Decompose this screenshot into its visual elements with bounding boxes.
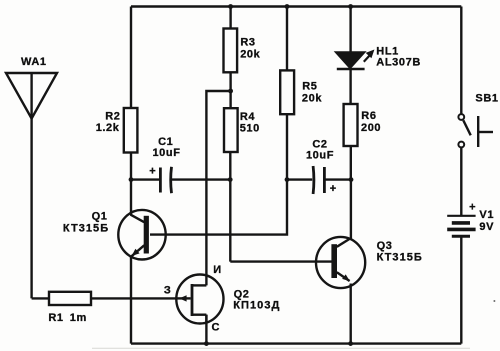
svg-text:R2: R2 (105, 111, 120, 123)
wire switch to battery (460, 148, 462, 216)
svg-text:R4: R4 (240, 111, 256, 123)
wire right column to switch (460, 7, 462, 114)
wire R6 node to Q3 collector (350, 180, 352, 240)
svg-text:R1: R1 (48, 312, 63, 324)
resistor R5 (280, 7, 294, 180)
wire C2 right (325, 178, 351, 180)
wire HL1 to R6 (349, 69, 351, 105)
svg-text:10uF: 10uF (306, 150, 334, 162)
svg-text:С: С (212, 322, 221, 334)
svg-text:И: И (213, 264, 222, 276)
svg-text:R3: R3 (240, 36, 255, 48)
svg-text:КТ315Б: КТ315Б (63, 222, 109, 234)
wire R2 bottom to Q1 collector (130, 153, 132, 216)
svg-text:З: З (164, 285, 172, 297)
node junction R2/C1 (129, 177, 134, 182)
svg-text:Q3: Q3 (377, 240, 393, 252)
LED HL1 (336, 50, 374, 69)
svg-text:R5: R5 (302, 80, 317, 92)
svg-text:КТ315Б: КТ315Б (377, 252, 423, 264)
wire left column upper (top rail to R2) (130, 7, 132, 109)
node junction R5/C2/Q1-base (285, 177, 290, 182)
transistor Q2 FET (176, 275, 223, 324)
node junction C2/R6 (349, 177, 354, 182)
svg-text:AL307B: AL307B (376, 56, 421, 68)
svg-text:WA1: WA1 (21, 56, 47, 68)
node junction Q3 emitter/bottom (348, 341, 353, 346)
svg-text:510: 510 (240, 122, 260, 134)
svg-text:+: + (330, 183, 337, 195)
wire C1 right to R4 node (172, 178, 230, 180)
wire Q1 emitter to bottom rail (130, 256, 132, 344)
wire Q2 source to bottom rail (205, 315, 207, 344)
wire C2 left (287, 178, 312, 180)
node junction Q2 source/bottom (204, 341, 209, 346)
svg-text:R6: R6 (361, 110, 376, 122)
svg-text:1m: 1m (70, 312, 87, 324)
transistor Q3 (316, 237, 365, 288)
wire antenna feed down (30, 118, 32, 298)
resistor R1 (49, 292, 91, 305)
svg-text:200: 200 (361, 122, 381, 134)
faint scan shadow line (92, 347, 470, 349)
svg-text:SB1: SB1 (475, 92, 498, 104)
svg-text:1.2k: 1.2k (96, 122, 120, 134)
wire battery to bottom rail (460, 237, 462, 344)
wire R1 to Q2 gate (91, 297, 176, 299)
svg-text:+: + (469, 202, 476, 214)
node junction R3/R4 (228, 89, 233, 94)
svg-text:Q1: Q1 (92, 210, 108, 222)
node junction R4/C1/Q3-base (228, 177, 233, 182)
wire R4 node down to Q3 base (230, 260, 332, 262)
node junction top R5 (285, 4, 290, 9)
antenna WA1 (6, 73, 57, 119)
wire jog R3R4 node to Q2 drain column (206, 91, 230, 285)
svg-text:9V: 9V (479, 221, 494, 233)
wire R5 node down and left to Q1 base (150, 180, 287, 235)
capacitor C1 (160, 167, 171, 193)
svg-text:20k: 20k (302, 93, 322, 105)
svg-text:20k: 20k (240, 49, 260, 61)
node junction top HL1 (348, 4, 353, 9)
wire top rail (131, 5, 461, 7)
switch SB1 (458, 114, 493, 147)
wire C1 left (131, 178, 160, 180)
wire Q3 emitter to bottom rail (350, 284, 352, 344)
scan speck (493, 300, 495, 302)
resistor R4 (224, 108, 238, 261)
svg-text:+: + (149, 165, 156, 177)
capacitor C2 (313, 166, 324, 194)
svg-text:КП103Д: КП103Д (233, 300, 280, 312)
wire antenna to R1 (32, 297, 49, 299)
battery V1 (447, 216, 475, 236)
transistor Q1 (118, 210, 165, 260)
resistor R6 (344, 104, 358, 180)
resistor R3 (224, 7, 238, 109)
resistor R2 (124, 108, 138, 153)
svg-text:10uF: 10uF (152, 147, 180, 159)
wire bottom rail (131, 342, 461, 344)
node junction top R3 (228, 4, 233, 9)
LED HL1 column wire (349, 7, 351, 53)
svg-text:V1: V1 (479, 209, 494, 221)
